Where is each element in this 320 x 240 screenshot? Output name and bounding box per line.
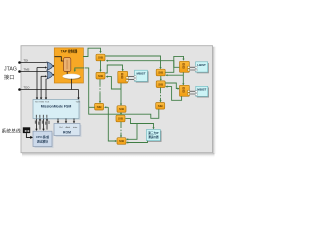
pins TDR2 to MBIST2 bbox=[190, 91, 196, 94]
svg-text:SIB: SIB bbox=[98, 74, 104, 78]
wire FSM TCK riser bbox=[45, 79, 47, 100]
wire SIB R3 return to TAP bbox=[85, 68, 159, 118]
wire register to selector bbox=[66, 72, 68, 75]
wires FSM to ROM bbox=[57, 119, 75, 124]
wire TDO from selector down bbox=[71, 79, 73, 90]
svg-text:Addr: Addr bbox=[66, 126, 71, 129]
wire SIB R2 out to TDR2 bbox=[165, 83, 180, 90]
wire FSM TMS riser to mux2 bbox=[40, 75, 47, 100]
wire mux2 out to TAP bbox=[52, 74, 55, 76]
svg-text:CPU 核/或: CPU 核/或 bbox=[36, 135, 49, 139]
wire TDR1 return to SIB1 bbox=[106, 60, 180, 68]
SIB S2 bbox=[96, 72, 105, 79]
svg-text:TMS: TMS bbox=[39, 102, 44, 104]
node TMS bbox=[18, 67, 29, 72]
svg-text:调试模块: 调试模块 bbox=[37, 139, 48, 143]
wire FSM TDI riser to mux1 bbox=[36, 66, 47, 100]
svg-text:◄►: ◄► bbox=[24, 129, 31, 133]
ROM block bbox=[54, 124, 82, 138]
node TDI bbox=[18, 58, 28, 64]
selector ellipse inside TAP bbox=[63, 74, 82, 80]
svg-text:TDI: TDI bbox=[35, 102, 39, 104]
TAP controller block bbox=[54, 48, 83, 83]
svg-text:接口: 接口 bbox=[4, 73, 14, 81]
TDR2 block bbox=[180, 85, 190, 96]
SIB C bbox=[116, 115, 125, 122]
pin labels FSM top bbox=[35, 102, 81, 104]
wire TAP input to register bbox=[55, 57, 64, 61]
TDR1 block bbox=[180, 61, 190, 72]
svg-text:测试仪器: 测试仪器 bbox=[148, 135, 159, 139]
SIB R1 bbox=[156, 69, 165, 76]
SIB R3 bbox=[156, 103, 165, 110]
label JTAG interface bbox=[4, 67, 17, 82]
svg-text:TDO: TDO bbox=[24, 85, 31, 89]
wire TDO horizontal bbox=[20, 89, 79, 91]
wire TAP out to SIB1 bbox=[83, 48, 102, 56]
wire instrument return to SIB D bbox=[126, 141, 148, 144]
system bus arrow into CPU box bbox=[26, 133, 33, 139]
SIB R2 bbox=[156, 81, 165, 88]
wire mux1 out to TAP bbox=[52, 65, 55, 67]
svg-text:SIB: SIB bbox=[158, 71, 164, 75]
wire SIB2 out to TDR M bbox=[105, 65, 124, 73]
svg-text:TDI: TDI bbox=[24, 58, 29, 62]
MissionMode FSM block bbox=[33, 100, 81, 121]
wire SIB1 out trunk to SIB R1 bbox=[105, 56, 161, 69]
instrument MBIST1 bbox=[195, 62, 209, 74]
pins TDR M to MBIST M bbox=[128, 77, 134, 80]
svg-text:TDO: TDO bbox=[75, 102, 80, 104]
wire SIB R1 out to TDR1 bbox=[165, 56, 184, 72]
svg-text:TCK: TCK bbox=[45, 102, 50, 104]
SIB S1 bbox=[96, 54, 105, 61]
wire TMS to mux2 bbox=[20, 71, 47, 73]
wire TDR M return to SIB2 and branch to SIB B bbox=[106, 76, 123, 106]
SIB B bbox=[117, 106, 126, 113]
wire green return into TAP selector bbox=[74, 68, 84, 72]
SIB D bbox=[117, 138, 126, 145]
wire SIB R2 to SIB R3 dashed bbox=[159, 88, 161, 103]
instrument MBIST2 bbox=[195, 86, 209, 97]
system bus icon bbox=[23, 127, 31, 133]
TDR M block bbox=[118, 71, 128, 83]
wire SIB2 to SIB A dashed bbox=[99, 79, 101, 103]
instrument MBIST M bbox=[134, 70, 149, 82]
wire TDR2 return to SIB R2 bbox=[165, 86, 181, 101]
wire SIB B to SIB C bbox=[120, 113, 122, 116]
svg-text:SIB: SIB bbox=[119, 139, 125, 143]
node TDO bbox=[18, 85, 30, 90]
pin labels between FSM and CPU box bbox=[35, 121, 49, 125]
wire down left trunk to SIB D bbox=[108, 107, 117, 142]
mux M2 bbox=[47, 71, 52, 79]
svg-text:MissionMode FSM: MissionMode FSM bbox=[41, 105, 72, 109]
svg-text:第三方IP: 第三方IP bbox=[148, 131, 159, 135]
svg-text:SIB: SIB bbox=[119, 107, 125, 111]
CPU debug block bbox=[33, 131, 54, 148]
instrument third party bbox=[147, 130, 162, 142]
wire TDR1 down to TDR2 bbox=[182, 72, 184, 85]
wire SIB C to SIB D dashed bbox=[120, 122, 122, 138]
svg-text:MBIST: MBIST bbox=[137, 71, 146, 75]
svg-text:JTAG: JTAG bbox=[4, 67, 17, 73]
wires FSM to CPU debug box bbox=[35, 118, 48, 131]
wire SIB A left join bbox=[89, 106, 95, 108]
svg-text:系统总线: 系统总线 bbox=[2, 128, 21, 135]
wire TDO drop to FSM bbox=[77, 90, 79, 101]
svg-text:SIB: SIB bbox=[98, 56, 104, 60]
svg-text:MBIST: MBIST bbox=[197, 87, 206, 91]
instruction register inside TAP bbox=[64, 58, 71, 72]
mux M1 bbox=[47, 62, 52, 70]
svg-text:TMS: TMS bbox=[24, 67, 30, 71]
svg-text:ROM: ROM bbox=[63, 131, 71, 135]
wire TDI to mux1 bbox=[20, 62, 47, 64]
svg-text:LBIST: LBIST bbox=[197, 63, 206, 67]
wire TDR1 branch return to SIB R1 bbox=[165, 74, 183, 76]
svg-text:SIB: SIB bbox=[158, 104, 164, 108]
svg-text:SIB: SIB bbox=[118, 117, 124, 121]
wire SIB A right join bbox=[104, 106, 108, 108]
pin labels FSM bottom bbox=[36, 115, 47, 118]
SIB A bbox=[95, 103, 104, 110]
pins TDR1 to MBIST1 bbox=[190, 67, 196, 70]
svg-text:SIB: SIB bbox=[97, 105, 103, 109]
panel background bbox=[21, 46, 217, 158]
svg-text:TAP 控制器: TAP 控制器 bbox=[61, 48, 78, 53]
wire SIB R1 to SIB R2 bbox=[160, 76, 162, 81]
svg-text:Ctrl: Ctrl bbox=[59, 126, 63, 129]
svg-text:SIB: SIB bbox=[158, 82, 164, 86]
wire SIB C out to instrument and SIB D branch bbox=[126, 119, 155, 141]
wire SIB1 to SIB2 bbox=[99, 60, 101, 72]
